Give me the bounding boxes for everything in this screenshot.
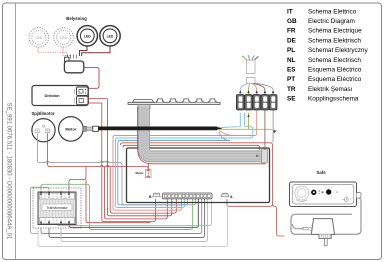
safe indicator marks — [319, 190, 320, 193]
wire LED1 to connector — [80, 46, 88, 56]
rail socket — [138, 105, 150, 110]
wire connector to driver input — [84, 68, 99, 89]
svg-text:GB: GB — [287, 18, 297, 25]
red wire along ribbon to fuse — [138, 107, 266, 164]
safe dial — [295, 186, 309, 200]
transformer assembly — [33, 188, 81, 228]
svg-text:FR: FR — [287, 28, 296, 35]
wire red nest 4 — [110, 167, 176, 214]
wire light blue loop — [116, 113, 253, 208]
terminal block 5x — [236, 95, 277, 111]
wire brown terminal4 into board — [264, 111, 266, 151]
svg-text:Drivdon: Drivdon — [44, 93, 60, 98]
wire transformer pin4 branch (dark red) — [69, 167, 86, 191]
sidebar divider line — [15, 3, 17, 260]
wire A to adapter area — [273, 205, 285, 237]
wire green loop via right of transformer — [41, 184, 192, 229]
safe lock icon — [343, 199, 345, 201]
LED lamp 1 — [77, 26, 97, 46]
wire outer light gray loop — [38, 203, 228, 247]
motor cable (black) — [98, 127, 217, 131]
wire gray transformer pin10 — [49, 199, 205, 238]
wire entry arrows — [239, 91, 274, 94]
wire gray loop via left of transformer — [31, 187, 50, 233]
svg-text:Schéma Electrique: Schéma Electrique — [308, 28, 362, 35]
svg-text:Esquema Eléctrico: Esquema Eléctrico — [308, 67, 362, 74]
svg-text:NL: NL — [287, 57, 296, 64]
svg-text:LED: LED — [35, 36, 42, 40]
svg-text:Schemat Elektryczny: Schemat Elektryczny — [308, 47, 368, 54]
wire gray transformer pin9 — [41, 199, 202, 234]
svg-text:Schema Elektrisch: Schema Elektrisch — [308, 37, 361, 44]
wire salmon stub to cable end — [219, 131, 234, 136]
rail clip bumps — [156, 99, 163, 102]
driver Drivdon — [32, 86, 88, 106]
mains cable stripped end — [242, 55, 259, 84]
svg-text:Motor: Motor — [135, 171, 144, 175]
wire light gray transformer pin13 — [61, 199, 208, 242]
svg-text:DE: DE — [287, 37, 297, 44]
wire dashed LED2 to connector — [63, 48, 70, 58]
svg-text:Belysning: Belysning — [66, 16, 87, 21]
adapter cable connector — [303, 227, 308, 229]
power adapter plug — [309, 219, 334, 246]
svg-text:Schema Elettrico: Schema Elettrico — [308, 8, 357, 15]
svg-text:Transformator: Transformator — [46, 206, 68, 210]
cable break — [247, 78, 256, 84]
safe button 1 — [311, 190, 316, 195]
driver output socket lower — [77, 96, 89, 105]
terminal strip on board — [163, 193, 213, 199]
svg-text:Elektrik Şeması: Elektrik Şeması — [308, 86, 353, 93]
svg-text:ES: ES — [287, 67, 296, 74]
fuse Motor — [135, 170, 151, 178]
motor shaft coupling — [83, 126, 98, 131]
svg-text:TR: TR — [287, 86, 296, 93]
safe power cable loop — [291, 198, 361, 234]
rail mount plate — [133, 100, 154, 103]
wire blue loop — [118, 141, 230, 205]
wire driver output to left bundle (red fan) — [88, 99, 107, 103]
ribbon cable — [139, 107, 268, 163]
wire red nest 2 — [105, 167, 168, 219]
wire green earth from cable end — [219, 113, 272, 129]
LED lamp 2 — [100, 26, 120, 46]
svg-text:Spjällmotor: Spjällmotor — [31, 111, 54, 116]
wire salmon loop — [113, 111, 257, 211]
connector B — [149, 193, 160, 199]
small mark — [337, 191, 338, 193]
wire red nest 3 — [107, 99, 171, 216]
wire dark red into board connector — [123, 145, 260, 150]
transformer dashed enclosure — [33, 188, 81, 228]
ribbon end connector — [262, 149, 268, 163]
wire red ring around board — [121, 143, 273, 207]
svg-text:SE: SE — [287, 96, 296, 103]
svg-text:LED: LED — [107, 34, 114, 38]
safe cable tab — [357, 193, 362, 199]
wire damper motor red — [48, 133, 149, 169]
transformer body — [38, 192, 76, 225]
svg-text:Safe: Safe — [316, 170, 326, 175]
damper motor M2 — [32, 119, 55, 142]
LED lamp optional 2 (dashed) — [54, 28, 74, 48]
lighting connector X1 — [64, 55, 83, 73]
svg-text:Kopplingsschema: Kopplingsschema — [308, 96, 359, 103]
wire black to transformer pin14 — [69, 199, 198, 228]
mounting rail — [128, 99, 220, 109]
wires cable to terminal block — [240, 83, 273, 94]
LED lamp optional 1 (dashed) — [29, 28, 49, 48]
svg-text:Schema Electrisch: Schema Electrisch — [308, 57, 361, 64]
wire red transformer branch to nest — [86, 180, 151, 223]
connector A — [221, 193, 233, 199]
safe button 2 — [326, 189, 331, 194]
wire light blue stub to cable end — [219, 113, 240, 128]
pin arrows top — [40, 191, 70, 193]
control board — [127, 148, 270, 203]
svg-text:PT: PT — [287, 76, 295, 83]
motor M1 — [59, 117, 84, 142]
wire damper motor gray — [37, 133, 195, 204]
svg-text:B: B — [149, 195, 152, 199]
svg-text:SE_991.0676.511 - 180830 - D00: SE_991.0676.511 - 180830 - D000000008644… — [6, 103, 12, 240]
arrow under terminal 2 — [247, 115, 249, 117]
wire faint red bottom — [57, 201, 212, 226]
svg-text:PL: PL — [287, 47, 295, 54]
language legend — [287, 8, 368, 102]
svg-text:LED: LED — [84, 34, 91, 38]
wire dashed LED1 to connector — [38, 48, 67, 57]
svg-text:A: A — [230, 195, 233, 199]
wire gray terminal5 stub — [272, 111, 275, 143]
wire red B loop — [102, 103, 156, 222]
earth arrow — [273, 130, 277, 134]
svg-text:Motor: Motor — [65, 126, 77, 131]
svg-text:Esquema Eléctrico: Esquema Eléctrico — [308, 76, 362, 83]
svg-text:IT: IT — [287, 8, 293, 15]
svg-text:LED: LED — [60, 36, 67, 40]
safe unit — [290, 182, 362, 207]
driver output socket upper — [77, 87, 89, 96]
svg-text:Electric Diagram: Electric Diagram — [308, 18, 355, 25]
pin marks — [74, 89, 76, 103]
pin contact marks — [41, 193, 69, 223]
wire LED2 to connector — [82, 46, 110, 56]
